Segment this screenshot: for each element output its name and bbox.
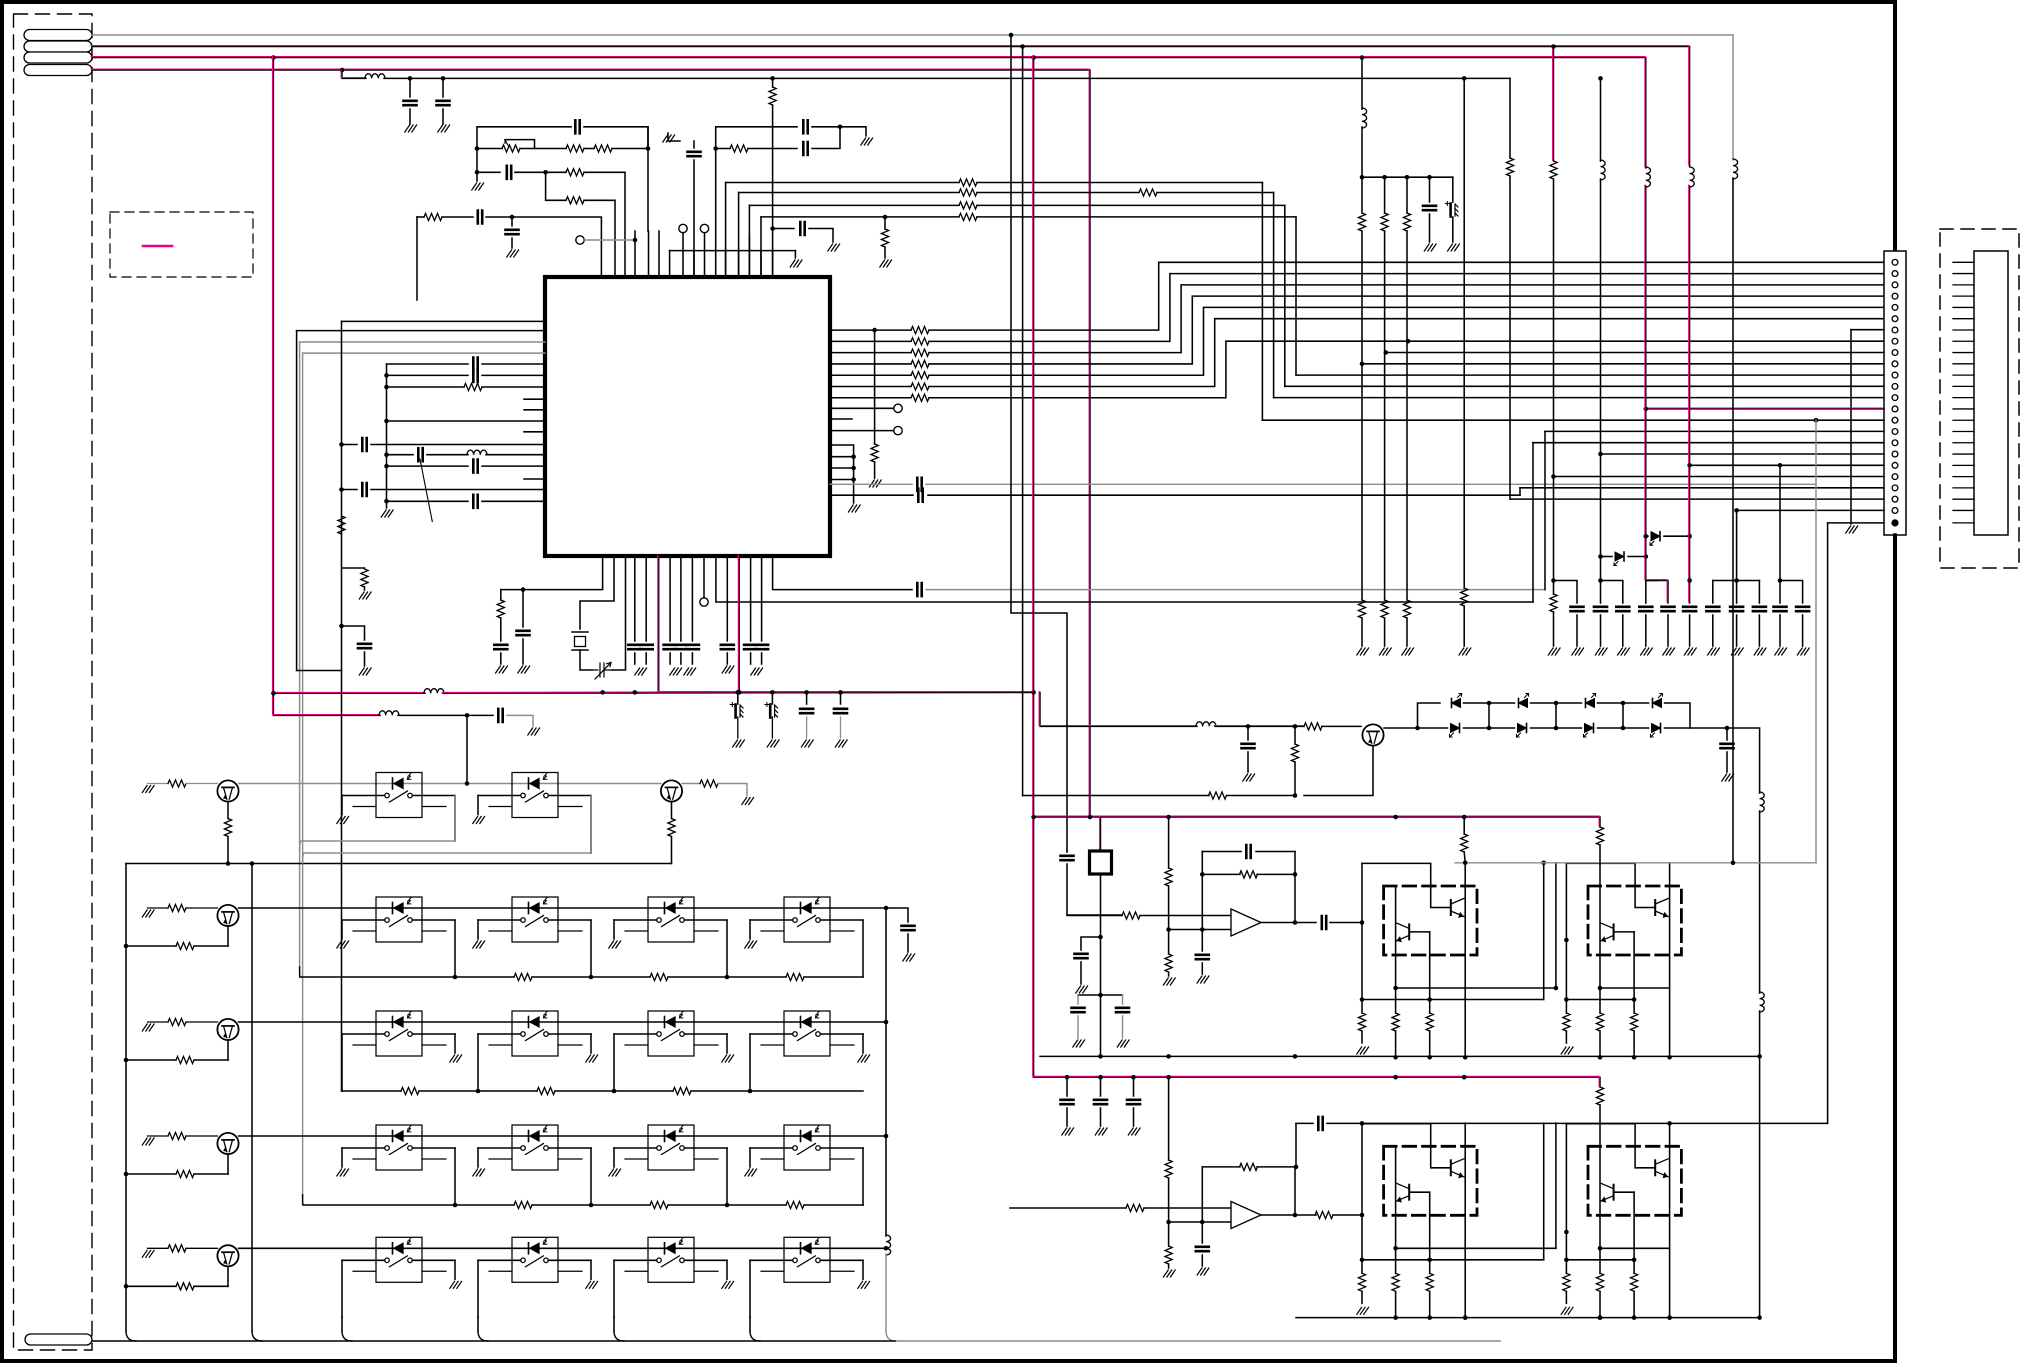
row4 col extend <box>749 1317 751 1331</box>
connector CN1 body <box>1884 251 1906 535</box>
opamp IC2 -in wire <box>1169 929 1231 931</box>
pin15 riser <box>1261 183 1263 421</box>
grey bus wire (pin1) <box>92 34 1733 36</box>
pair box B1 node busB <box>1427 1055 1432 1060</box>
Q row0 left emitter <box>227 802 229 819</box>
resistor R2 <box>566 145 584 152</box>
terminal circle T3 <box>700 224 708 232</box>
pair box B2 col left <box>1565 863 1567 1013</box>
node T1 pin <box>633 238 638 243</box>
ladder bot wire 0 <box>1464 727 1515 729</box>
switch S32 ground <box>473 1169 485 1176</box>
node rail x602 <box>600 690 605 695</box>
node emitter row0 <box>226 861 231 866</box>
resistor emitter row0 right <box>668 819 675 837</box>
ground R14 <box>869 480 881 487</box>
col x1733 low <box>1732 178 1734 863</box>
pair box B3 node base low <box>1427 1258 1432 1263</box>
resistor R23 <box>1209 792 1227 799</box>
capacitor bank x1067 <box>1061 1100 1074 1104</box>
pair box B3 emitter bus <box>1396 1247 1556 1249</box>
resistor row0 right <box>700 780 718 787</box>
ground C36 <box>1618 648 1630 655</box>
pair box B1 col left <box>1361 863 1363 1013</box>
inductor L4 <box>1646 167 1651 187</box>
C45 gnd <box>1080 962 1082 984</box>
bus y817 magenta <box>1034 817 1600 827</box>
wire C7 up <box>812 127 840 149</box>
pin12 riser <box>1284 205 1286 386</box>
IC right pin line 4 <box>830 374 911 376</box>
IC top pin x749.4 <box>748 251 750 277</box>
switch S02 left gnd lead <box>477 796 479 815</box>
node emitter row2 <box>124 1058 129 1063</box>
out wire to box <box>1330 922 1362 924</box>
pair box B1 node busA <box>1393 1055 1398 1060</box>
transistor Q1 <box>1362 724 1383 745</box>
osc right vert <box>647 127 649 231</box>
row3 switch bus seg <box>668 1204 786 1206</box>
col x1733 grey top <box>1732 35 1734 160</box>
wire to pin x615 <box>584 200 615 277</box>
switch S32 opto switch box <box>489 1125 582 1170</box>
bus line y192.5 vertical <box>738 193 740 278</box>
cap C43 lead <box>1247 726 1249 740</box>
ladder top wire 0 <box>1464 702 1515 704</box>
switch S42 opto switch box <box>489 1237 582 1282</box>
node fb in <box>1200 927 1205 932</box>
col x1452 low <box>1452 217 1454 242</box>
switch S24 right gnd lead <box>862 1034 864 1053</box>
switch S22 ground <box>586 1055 598 1062</box>
node x1600 pin18 <box>1598 452 1603 457</box>
col x1384 <box>1384 177 1386 213</box>
resistor R13 <box>497 600 504 618</box>
pair box B3 base bus <box>1362 1259 1544 1261</box>
resistor R8 <box>881 229 888 247</box>
col x1429 low <box>1429 214 1431 242</box>
row2 line <box>239 1021 886 1023</box>
x386 gnd lead <box>386 502 388 508</box>
ladder interconnect <box>1555 703 1557 728</box>
transistor Q row <box>217 1019 238 1040</box>
switch S31 left wire <box>342 1147 385 1149</box>
switch S22 right gnd lead <box>590 1034 592 1053</box>
pol capacitor C33 <box>1445 202 1458 217</box>
bus B wire (pin3) magenta <box>92 58 1646 167</box>
pair box B1 node left out <box>1360 920 1365 925</box>
IC right low pin y456.7 <box>830 456 854 458</box>
IC bottom pin x692 <box>691 556 693 641</box>
resistor R28 <box>1165 954 1172 972</box>
capacitor C45 <box>1075 954 1088 958</box>
ground R12 <box>359 592 371 599</box>
node row4 right <box>884 1246 889 1251</box>
C28 gnd <box>761 653 763 664</box>
row wire to Q <box>186 907 217 909</box>
pair box B1 col A low <box>1395 1031 1397 1057</box>
ladder bot node 2 <box>1621 726 1626 731</box>
node x1600 y556 <box>1598 554 1603 559</box>
inductor L1 <box>365 74 385 79</box>
capacitor C3 <box>575 120 579 133</box>
ground C18 <box>359 668 371 675</box>
row1 emitter wire <box>194 945 228 947</box>
resistor bus row3 <box>786 1201 804 1208</box>
ground C45 <box>1076 986 1088 993</box>
resistor R17b <box>1403 213 1410 231</box>
resistor RR3 <box>911 360 929 367</box>
opamp IC2 +in wire b <box>1140 915 1231 917</box>
IC right pin line 3 <box>830 363 911 365</box>
capacitor C1 <box>404 101 417 105</box>
pair box B2 node left low <box>1564 997 1569 1002</box>
bus line y216.9 <box>761 216 959 218</box>
osc lower wire <box>477 171 500 173</box>
C47 gnd <box>1077 1016 1079 1038</box>
row2 emitter wire <box>194 1059 228 1061</box>
row1 switch bus seg <box>668 976 786 978</box>
switch S22 left drop <box>477 1034 479 1091</box>
resistor R10 <box>464 383 482 390</box>
row1 switch bus seg <box>804 976 863 978</box>
connector pin circle 4 <box>1892 293 1898 299</box>
pair box B2 node right low <box>1667 1055 1672 1060</box>
pair box B1 QL base <box>1409 931 1430 933</box>
pin6 ground line <box>1851 329 1884 331</box>
IC top pin x772.6 <box>772 251 774 277</box>
row1 line <box>239 907 886 909</box>
switch S23 ground <box>722 1055 734 1062</box>
resistor R9 <box>424 213 442 220</box>
pair box B3 resistor left <box>1358 1273 1365 1291</box>
row3 bus elbow <box>302 1195 304 1205</box>
wire C6 to gnd corner <box>812 127 866 136</box>
switch S12 ground <box>473 941 485 948</box>
row3 switch bus seg <box>532 1204 650 1206</box>
ground bank x1133.5 <box>1128 1128 1140 1135</box>
x1465 feed b <box>1464 852 1465 863</box>
pair box B2 col A <box>1599 886 1601 1013</box>
IC stub y419 <box>830 418 852 420</box>
x1168 mid2 <box>1168 1178 1170 1246</box>
node bus1057 x1168 <box>1166 1054 1171 1059</box>
resistor R8 top <box>884 217 886 229</box>
C48 gnd <box>1122 1016 1124 1038</box>
fb column2 <box>1201 1167 1203 1222</box>
wire y454 b <box>486 454 545 456</box>
rail cap x772.4 lead <box>771 692 773 704</box>
C54 gnd <box>907 934 909 952</box>
ground C34 <box>1572 648 1584 655</box>
IC bottom pin x727 <box>726 556 728 641</box>
ground col1553 <box>1548 648 1560 655</box>
wire y489 <box>342 489 358 491</box>
amp line y726 <box>1215 725 1304 727</box>
connector pin circle 17 <box>1892 440 1898 446</box>
capacitor C20 <box>517 631 530 635</box>
resistor R32 <box>1165 1246 1172 1264</box>
IC top pin x683 <box>682 251 684 277</box>
row4 emitter wire b <box>126 1285 176 1287</box>
switch S44 left wire <box>750 1259 793 1261</box>
node y817 x1096 <box>1088 815 1093 820</box>
pin11 line <box>1296 374 1884 376</box>
C52 gnd <box>1201 1255 1203 1266</box>
col x1362 upper <box>1361 58 1363 110</box>
right osc mid wire <box>716 148 730 150</box>
IC top pin x738.6 <box>738 251 740 277</box>
pin16 riser <box>1544 431 1546 589</box>
cross pair v1 <box>1543 863 1545 1000</box>
opamp IC3 +in wire b <box>1144 1207 1231 1209</box>
resistor R7 line from y78 <box>772 78 774 87</box>
row1 bus elbow <box>299 967 301 977</box>
pair box B4 resistor base <box>1631 1273 1638 1291</box>
pair box B4 col left low <box>1565 1291 1567 1303</box>
resistor R21 <box>1291 744 1298 762</box>
label pointer line <box>420 459 432 522</box>
thick lead from connector bottom <box>1893 535 1897 1361</box>
connector pin circle 8 <box>1892 338 1898 344</box>
IC stub y432 <box>524 431 545 433</box>
resistor R6 <box>730 145 748 152</box>
inductor L6 <box>1733 159 1738 179</box>
cap C10 lead <box>511 217 513 226</box>
C40 gnd <box>1736 615 1738 646</box>
pair box B4 node left low <box>1564 1258 1569 1263</box>
ground col1429 <box>1424 244 1436 251</box>
IC right pin line 5 <box>830 386 911 388</box>
switch S11 right drop <box>454 920 456 977</box>
left vert x341 <box>341 321 343 670</box>
node y78 x1464 <box>1462 76 1467 81</box>
col x1429 <box>1429 177 1431 202</box>
capacitor C23 <box>664 645 677 649</box>
cross pair v2 <box>1555 863 1557 988</box>
resistor R14 <box>871 444 878 462</box>
switch S01 left gnd lead <box>341 796 343 815</box>
row3 emitter wire <box>194 1173 228 1175</box>
ground C44 <box>1722 774 1734 781</box>
capacitor C48 <box>1116 1008 1129 1012</box>
cap bank2 bridge <box>1078 994 1123 996</box>
C41 top <box>1758 581 1760 604</box>
switch S12 opto switch box <box>489 897 582 942</box>
node bus row1 c1 <box>589 975 594 980</box>
pair box B4 col base <box>1633 1192 1635 1273</box>
IC pin y430 to T6 <box>830 430 894 432</box>
T2 lead <box>682 233 684 251</box>
node low pin y479.5 <box>851 477 856 482</box>
resistor R13 lead <box>500 590 502 600</box>
trimmer R1 body <box>502 145 520 152</box>
switch S14 opto switch box <box>761 897 854 942</box>
ground C1 <box>405 125 417 132</box>
IC bottom pin x680 <box>680 556 682 641</box>
connector pin circle 21 <box>1892 485 1898 491</box>
switch S14 left gnd lead <box>749 920 751 939</box>
node y1077 x1100 <box>1098 1075 1103 1080</box>
IC bottom pin x670 <box>669 556 671 641</box>
node y726 x1248 <box>1246 724 1251 729</box>
node x1689 y580 <box>1687 578 1692 583</box>
col x1553 top magenta <box>1553 47 1555 162</box>
fb res wire <box>1202 873 1240 875</box>
resistor row base <box>168 904 186 911</box>
node fb in2 <box>1200 1220 1205 1225</box>
node D2 magenta <box>1644 534 1649 539</box>
x386 vert <box>386 364 388 502</box>
ground rail x737.8 <box>733 740 745 747</box>
row1 corner cap <box>886 908 908 922</box>
node row2 top x1362 <box>1360 1121 1365 1126</box>
pin23 line <box>1737 509 1884 511</box>
node rail x1033 <box>1031 690 1036 695</box>
pair box B3 col right <box>1464 1123 1466 1318</box>
legend magenta sample wire <box>143 245 172 248</box>
ladder top node 2 <box>1621 701 1626 706</box>
wire y466 <box>387 465 469 467</box>
node y817 x1464 <box>1462 815 1467 820</box>
rail y715 magenta <box>273 714 380 716</box>
resistor emitter row3 <box>176 1170 194 1177</box>
row1 emitter wire b <box>126 945 176 947</box>
switch S43 left drop <box>613 1260 615 1317</box>
switch S31 left gnd lead <box>341 1148 343 1167</box>
opamp IC3 <box>1231 1202 1261 1229</box>
switch S44 right wire <box>820 1259 863 1261</box>
C20 gnd <box>522 639 524 664</box>
capacitor C38 <box>1683 607 1696 611</box>
kb col line B vert <box>299 342 301 977</box>
ground R8 <box>880 260 892 267</box>
pair box B4 col base low <box>1633 1291 1635 1317</box>
row base wire <box>148 1021 169 1023</box>
node y78 x410 <box>408 76 413 81</box>
connector pin circle 13 <box>1892 395 1898 401</box>
switch S43 left wire <box>614 1259 657 1261</box>
node osc C4 <box>543 170 548 175</box>
capacitor C31 <box>918 489 922 502</box>
ladder top node 0 <box>1487 701 1492 706</box>
resistor R25 <box>1596 1087 1603 1105</box>
capacitor C52 <box>1196 1247 1209 1251</box>
switch S31 right drop <box>454 1148 456 1205</box>
rail cap x737.8 node <box>736 690 741 695</box>
row2 cap line riser <box>1295 1123 1297 1167</box>
node bus row2 c2 <box>748 1089 753 1094</box>
IC top pin x648.5 <box>648 231 650 277</box>
resistor bus row2 <box>537 1087 555 1094</box>
bus line y216.9 vertical <box>760 217 762 277</box>
switch S22 left wire <box>478 1033 521 1035</box>
Q1 top right <box>1384 727 1418 729</box>
pair box B2 resistor base <box>1631 1013 1638 1031</box>
node osc right <box>646 146 651 151</box>
terminal circle T6 <box>894 426 902 434</box>
C41 gnd <box>1758 615 1760 646</box>
fb out column <box>1294 852 1296 923</box>
node grey x1465 <box>1463 861 1468 866</box>
ground bank x1067 <box>1062 1128 1074 1135</box>
IC right pin line 4 b <box>929 307 1884 375</box>
node x1384 y177 <box>1382 175 1387 180</box>
row2 switch bus seg <box>691 1090 863 1092</box>
col x1384 low <box>1384 618 1386 646</box>
pair box B4 base bus <box>1566 1259 1634 1261</box>
bridge 1780-1802 <box>1780 581 1803 604</box>
vertical feed x273 magenta <box>272 58 274 716</box>
connector pin circle 2 <box>1892 271 1898 277</box>
bus line y205.4 <box>749 204 959 206</box>
node ps out2 <box>1098 993 1103 998</box>
switch S22 opto switch box <box>489 1011 582 1056</box>
pin18 line <box>1601 453 1885 455</box>
pair box B3 node busB <box>1427 1315 1432 1320</box>
resistor row base <box>168 1132 186 1139</box>
connector pin circle 18 <box>1892 451 1898 457</box>
pin20 line <box>1554 476 1885 478</box>
node y817 x1168 <box>1166 815 1171 820</box>
resistor R15b <box>1358 213 1365 231</box>
wire R6-C7 <box>748 148 797 150</box>
node x386 y501 <box>384 499 389 504</box>
opamp IC2 +in wire <box>1067 915 1122 917</box>
pair box B3 node left low <box>1360 1258 1365 1263</box>
node osc left bot <box>475 170 480 175</box>
C19 gnd <box>500 653 502 664</box>
row0 gnd tail <box>718 784 747 796</box>
bus line y182.5 vertical <box>725 183 727 278</box>
node R8 <box>883 215 888 220</box>
trimcap CV1 <box>592 663 612 680</box>
bus line y192.5 <box>739 192 959 194</box>
Q row0 right emitter <box>671 802 673 819</box>
switch S42 left drop <box>477 1260 479 1317</box>
pin6 vert <box>1850 330 1852 524</box>
IC top pin x659 <box>658 231 660 277</box>
node feed x1011 <box>1009 33 1014 38</box>
IC bottom pin x704 nc <box>703 556 705 597</box>
node pin14 magenta <box>1644 407 1649 412</box>
pin9 line <box>1386 352 1884 354</box>
pair box B1 col right <box>1464 863 1466 1058</box>
rail cap x806.6 lead <box>806 692 808 704</box>
bus A wire (pin2) magenta <box>92 47 1690 167</box>
left connector coil pin 2 <box>24 41 92 52</box>
pair box B3 col left low <box>1361 1291 1363 1303</box>
left connector dashed outline <box>14 14 93 1350</box>
C27 gnd <box>750 653 752 664</box>
node pin10 <box>1360 362 1365 367</box>
pair box B3 resistor base <box>1426 1273 1433 1291</box>
switch S22 right wire <box>548 1033 591 1035</box>
R13-C19 <box>500 618 502 641</box>
ground topmid <box>663 135 675 142</box>
kb col line A <box>297 330 545 332</box>
switch S23 opto switch box <box>625 1011 718 1056</box>
C44 gnd <box>1726 752 1728 772</box>
switch S21 left drop <box>341 1034 343 1091</box>
switch S43 opto switch box <box>625 1237 718 1282</box>
bus y1077 magenta <box>1034 1077 1600 1087</box>
node bus1057 x1295 <box>1293 1054 1298 1059</box>
resistor row base <box>168 1245 186 1252</box>
node rail x273 <box>271 691 276 696</box>
col x1362 mid <box>1361 127 1363 213</box>
switch S11 left wire <box>342 919 385 921</box>
